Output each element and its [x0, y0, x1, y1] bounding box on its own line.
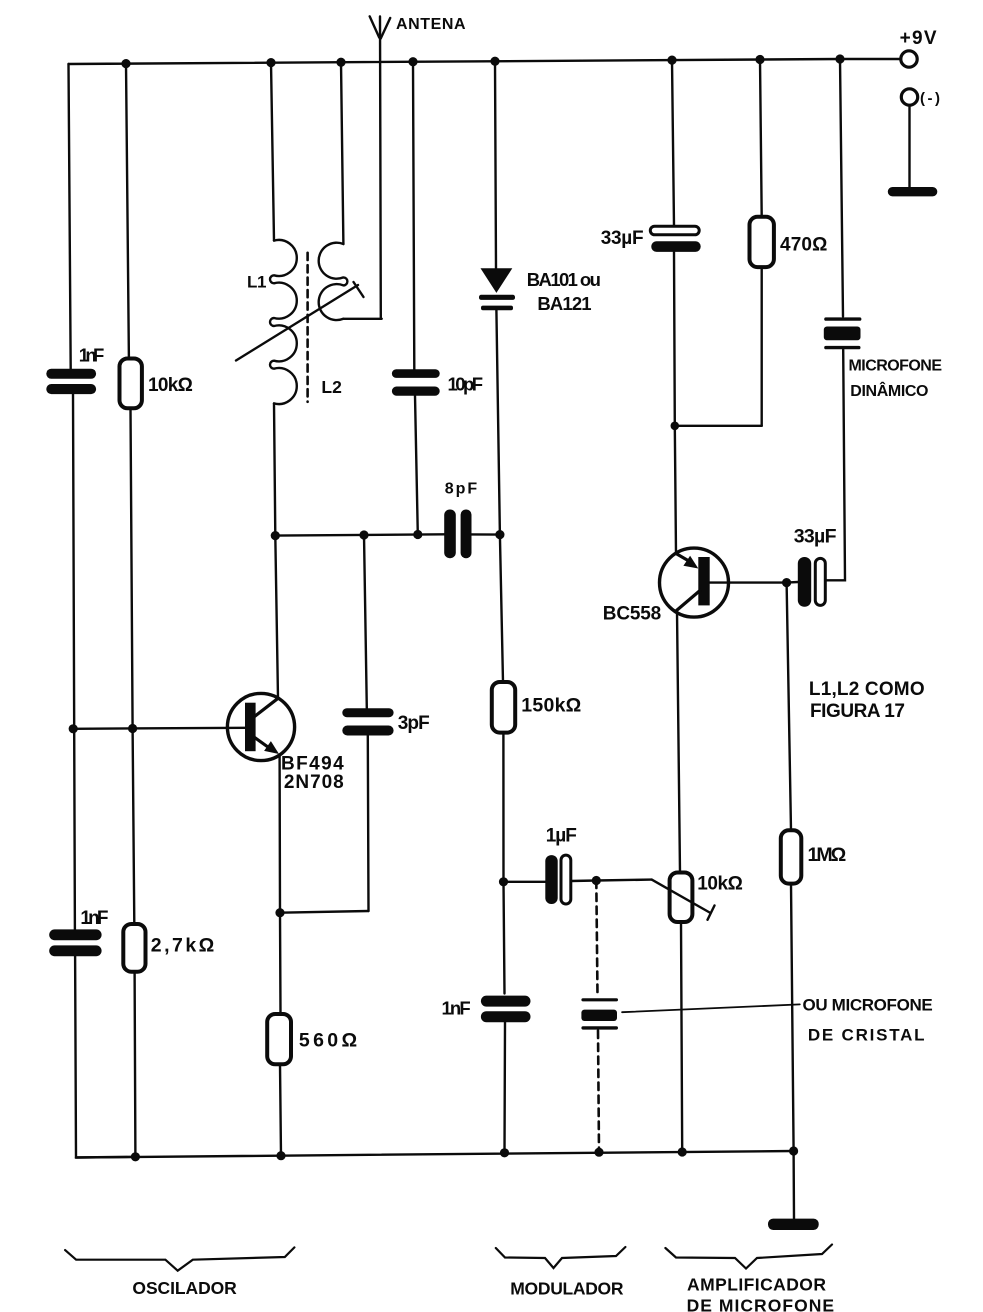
wire node to 470 bottom [675, 425, 762, 427]
wire 470 bottom [761, 267, 763, 426]
capacitor 3pF [342, 708, 393, 735]
svg-text:8pF: 8pF [445, 480, 478, 497]
resistor R 2.7k body [123, 924, 145, 972]
arrow variable core adjust [236, 285, 358, 361]
svg-text:3pF: 3pF [398, 713, 430, 734]
svg-text:MODULADOR: MODULADOR [510, 1279, 624, 1299]
antenna V symbol [370, 16, 391, 38]
microphone crystal symbol [581, 998, 618, 1029]
wire 560 bottom [280, 1064, 281, 1155]
wire node to 1M branch [787, 583, 791, 831]
wire 150k branch [500, 535, 503, 682]
potentiometer R 10k body [670, 873, 693, 923]
wire 10pF branch top [413, 62, 414, 370]
capacitor C 33uF-2 coupling [798, 557, 826, 607]
wire 8pF right to node [472, 533, 500, 536]
svg-text:560Ω: 560Ω [299, 1030, 357, 1052]
capacitor C 1nF top-left [46, 369, 96, 394]
terminal +9V [901, 51, 917, 67]
wire diode bottom [496, 310, 500, 534]
svg-text:10pF: 10pF [448, 374, 484, 395]
wire 3pF top [364, 535, 367, 708]
svg-text:+9V: +9V [900, 28, 937, 49]
svg-text:BA121: BA121 [537, 293, 591, 314]
svg-text:10kΩ: 10kΩ [697, 873, 743, 894]
svg-text:L2: L2 [321, 377, 342, 397]
wire L1 bottom to collector node [274, 403, 278, 698]
svg-text:2,7kΩ: 2,7kΩ [151, 935, 215, 957]
svg-text:1µF: 1µF [546, 826, 577, 847]
wire diode branch top [495, 61, 496, 269]
svg-text:DINÂMICO: DINÂMICO [850, 381, 928, 400]
svg-text:1nF: 1nF [79, 345, 105, 366]
diode BA101/BA121 varicap [479, 268, 515, 310]
svg-text:2N708: 2N708 [284, 772, 344, 793]
svg-text:ANTENA: ANTENA [396, 16, 466, 33]
svg-text:470Ω: 470Ω [780, 234, 827, 255]
node wire y534 oscillator [275, 534, 444, 535]
capacitor C 1uF electrolytic [545, 855, 571, 904]
ground bar (-) [888, 187, 938, 196]
wire 1uF right to pot wiper [571, 880, 652, 881]
svg-text:1MΩ: 1MΩ [808, 844, 847, 866]
svg-text:DE CRISTAL: DE CRISTAL [808, 1026, 925, 1045]
svg-text:10kΩ: 10kΩ [148, 375, 193, 396]
wire bottom ground rail [76, 1151, 794, 1158]
svg-text:150kΩ: 150kΩ [521, 695, 581, 717]
resistor R 560 body [267, 1014, 291, 1064]
resistor R 1M body [781, 830, 802, 883]
wire microphone down to coupling cap [826, 350, 846, 581]
brace modulator [496, 1247, 626, 1268]
svg-text:1nF: 1nF [80, 908, 108, 929]
wire 33uF-1 branch top [672, 60, 674, 226]
resistor R 150k body [492, 682, 515, 733]
svg-text:OSCILADOR: OSCILADOR [132, 1278, 237, 1298]
ground bar bottom [768, 1219, 819, 1230]
wire 1nF modulator bottom [503, 1022, 506, 1153]
svg-text:BC558: BC558 [603, 604, 661, 625]
svg-text:L1: L1 [247, 273, 267, 292]
wire bottom rail to ground [792, 1151, 795, 1219]
svg-text:OU MICROFONE: OU MICROFONE [803, 996, 933, 1015]
wire 470 branch top [760, 60, 762, 217]
svg-text:(-): (-) [920, 90, 940, 107]
wire Q1 base [73, 728, 245, 729]
crystal dashed link bottom [598, 1031, 599, 1153]
terminal (-) [901, 89, 917, 105]
transistor Q1 BF494 [227, 693, 294, 760]
transistor Q2 BC558 [660, 548, 729, 617]
wire 150k bottom [503, 733, 504, 994]
core dashed line L1/L2 [306, 253, 309, 402]
wire emitter-3pF link [280, 911, 369, 913]
resistor R 470 body [750, 217, 774, 267]
wire top supply rail [69, 59, 902, 64]
wire pointer to crystal note [622, 1004, 800, 1012]
wire node to 1uF [504, 881, 546, 883]
svg-text:AMPLIFICADOR: AMPLIFICADOR [687, 1275, 826, 1295]
potentiometer 10k wiper arrow [652, 880, 715, 920]
wire node to 33uF-2 [787, 581, 798, 584]
inductor L2 [319, 243, 348, 320]
capacitor C 33uF electrolytic [650, 226, 700, 252]
svg-text:MICROFONE: MICROFONE [849, 358, 943, 375]
wire 1M bottom [791, 884, 794, 1151]
capacitor 8pF [444, 510, 471, 559]
wire Q2 collector down to pot [677, 612, 680, 874]
wire 10pF bottom [415, 396, 418, 535]
wire microphone branch top [840, 59, 843, 317]
capacitor C 1nF modulator [481, 996, 531, 1023]
inductor L1 [270, 240, 297, 404]
wire 3pF bottom [367, 736, 370, 912]
microphone dynamic symbol [824, 317, 862, 349]
svg-text:FIGURA 17: FIGURA 17 [810, 701, 905, 722]
svg-text:DE MICROFONE: DE MICROFONE [687, 1296, 835, 1312]
wire L2 bottom to antenna line [343, 318, 381, 320]
svg-text:BA101 ou: BA101 ou [527, 269, 601, 290]
svg-text:1nF: 1nF [442, 998, 471, 1019]
brace oscillator [65, 1247, 294, 1270]
wire left rail [69, 64, 136, 1158]
wire Q1 emitter down [278, 756, 281, 1014]
wire 10k/2.7k rail [126, 64, 135, 1157]
wire L1 rail top [271, 63, 274, 241]
wire (-) to ground [908, 105, 910, 187]
capacitor 10pF [392, 369, 440, 395]
svg-text:33µF: 33µF [794, 526, 837, 548]
wire 33uF-1 bottom to node [674, 252, 676, 554]
capacitor C 1nF lower-left [49, 929, 101, 956]
svg-text:33µF: 33µF [601, 228, 644, 249]
resistor R 10k body [120, 359, 142, 409]
crystal dashed link top [596, 881, 597, 996]
wire Q2 base right [710, 581, 787, 583]
wire L2 rail top [341, 62, 343, 244]
brace amplifier [665, 1245, 832, 1269]
svg-text:L1,L2 COMO: L1,L2 COMO [809, 679, 925, 700]
antenna mast wire [379, 17, 382, 319]
wire pot bottom [681, 922, 682, 1152]
